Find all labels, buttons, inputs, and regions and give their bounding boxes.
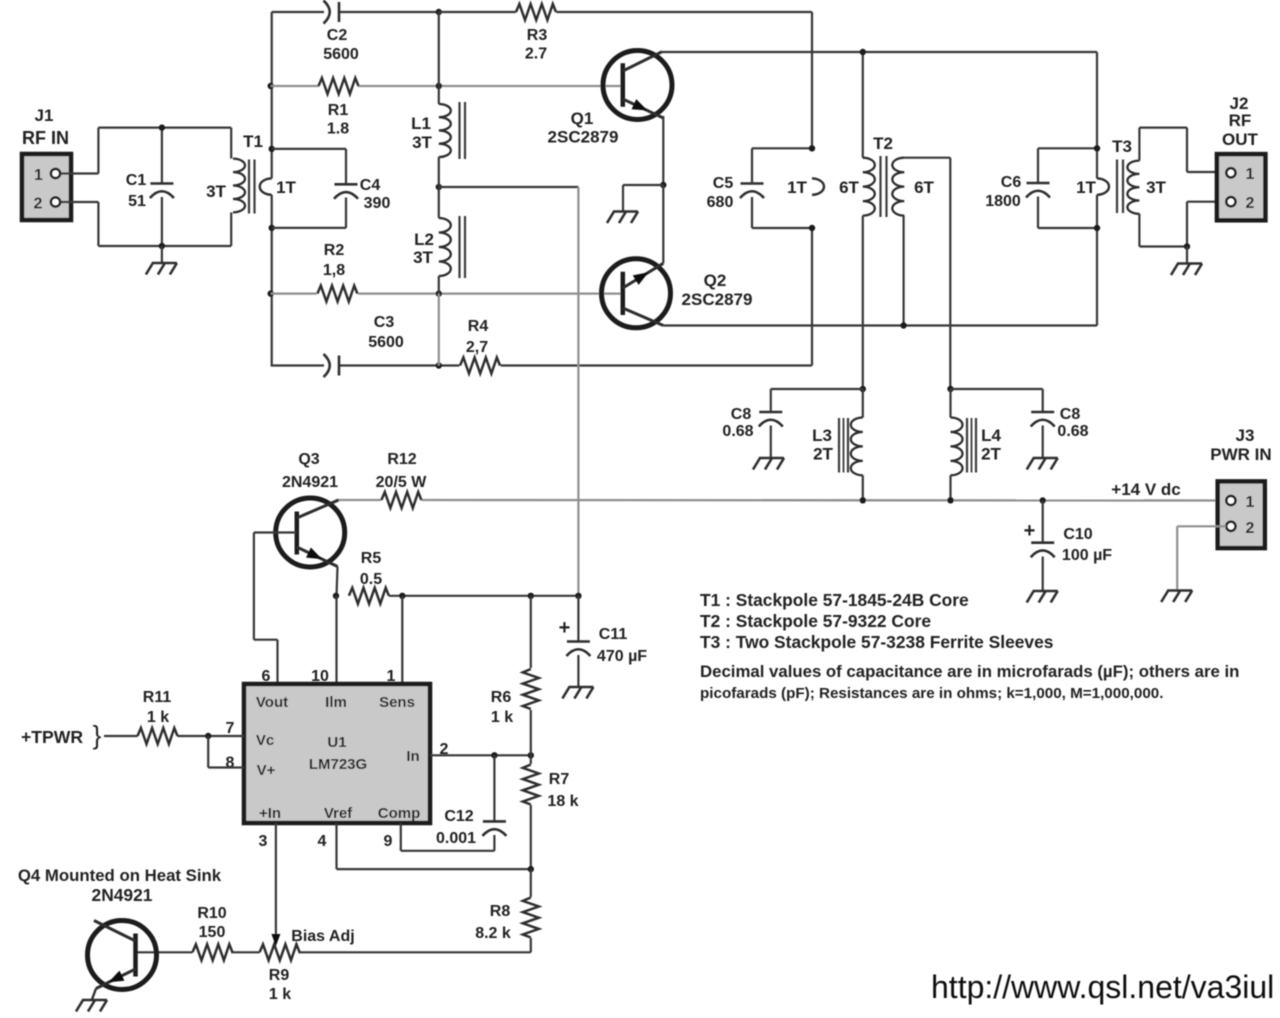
- svg-text:2,7: 2,7: [466, 339, 488, 356]
- resistor R11: [104, 689, 244, 744]
- svg-text:51: 51: [128, 193, 146, 210]
- wire output link vertical x1097: [1096, 52, 1098, 326]
- svg-text:http://www.qsl.net/va3iul: http://www.qsl.net/va3iul: [931, 969, 1274, 1005]
- transformer T1: [206, 128, 263, 246]
- wire Ilm pin10: [335, 596, 337, 684]
- svg-text:L2: L2: [414, 230, 434, 249]
- inductor L2: [413, 157, 465, 366]
- wire V+ pin8: [208, 736, 244, 768]
- node R6 R7 junction: [528, 752, 534, 758]
- node base bus upper: [436, 83, 442, 89]
- transformer T2: [839, 52, 950, 389]
- svg-text:L4: L4: [981, 426, 1001, 445]
- capacitor C3: [324, 314, 404, 377]
- svg-text:2SC2879: 2SC2879: [682, 290, 753, 309]
- svg-text:R10: R10: [197, 905, 226, 922]
- node base bus lower: [436, 290, 442, 296]
- svg-text:PWR IN: PWR IN: [1210, 445, 1271, 464]
- resistor R6: [491, 596, 539, 756]
- svg-text:picofarads (pF); Resistances a: picofarads (pF); Resistances are in ohms…: [700, 685, 1163, 702]
- svg-text:1800: 1800: [985, 193, 1021, 210]
- svg-text:3T: 3T: [206, 182, 226, 201]
- svg-text:1: 1: [387, 668, 396, 685]
- svg-text:7: 7: [226, 720, 235, 737]
- svg-text:T3: T3: [1112, 137, 1132, 156]
- capacitor C6 loop: [985, 148, 1097, 228]
- wire Vref pin4: [337, 823, 531, 869]
- wire Q2 collector bus y325.5: [663, 324, 1097, 326]
- node Vc V+ tie: [205, 733, 211, 739]
- svg-text:Vc: Vc: [256, 732, 274, 749]
- svg-text:20/5 W: 20/5 W: [376, 474, 428, 491]
- wire T2 secondary top to L4: [949, 158, 951, 389]
- svg-text:T1 : Stackpole 57-1845-24B Cor: T1 : Stackpole 57-1845-24B Core: [700, 590, 969, 610]
- capacitor C8 left: [722, 389, 862, 470]
- svg-text:C5: C5: [713, 175, 734, 192]
- capacitor C2: [323, 1, 359, 64]
- svg-text:RF: RF: [1229, 111, 1252, 130]
- svg-text:2: 2: [1246, 195, 1255, 212]
- wire J2 pin2 to ground: [1187, 202, 1226, 247]
- node C1 top: [159, 124, 165, 130]
- svg-text:0.68: 0.68: [1057, 423, 1088, 440]
- svg-text:J3: J3: [1236, 426, 1255, 445]
- capacitor C8 right: [951, 389, 1089, 470]
- svg-text:L3: L3: [812, 426, 832, 445]
- node T3 ground junction: [1184, 243, 1190, 249]
- wire base bus lower y293.6: [271, 293, 622, 295]
- svg-text:2T: 2T: [813, 445, 833, 464]
- node C6 top: [1094, 145, 1100, 151]
- svg-text:R9: R9: [269, 967, 290, 984]
- node T2 primary top: [860, 49, 866, 55]
- connector J3 PWR IN: [1210, 426, 1271, 548]
- wire Q3 base to Vout: [254, 533, 297, 685]
- svg-text:C2: C2: [327, 27, 348, 44]
- node C6 bottom: [1094, 225, 1100, 231]
- transistor Q4 2N4921: [18, 866, 222, 990]
- transformer T3: [1112, 128, 1187, 247]
- node L4 top: [947, 386, 953, 392]
- svg-text:OUT: OUT: [1222, 130, 1259, 149]
- svg-text:1T: 1T: [1076, 178, 1096, 197]
- node rail C4 bottom: [269, 225, 275, 231]
- resistor R1: [319, 78, 359, 138]
- svg-text:2N4921: 2N4921: [282, 474, 338, 491]
- svg-text:3T: 3T: [413, 248, 433, 267]
- svg-text:3: 3: [259, 833, 268, 850]
- svg-text:Bias Adj: Bias Adj: [291, 928, 354, 945]
- svg-text:R6: R6: [491, 689, 512, 706]
- capacitor C5 loop: [707, 148, 812, 228]
- svg-text:1T: 1T: [276, 178, 296, 197]
- node rail R2: [268, 290, 274, 296]
- svg-text:4: 4: [318, 833, 327, 850]
- svg-text:R1: R1: [328, 102, 349, 119]
- capacitor C4 loop: [272, 149, 391, 228]
- svg-text:3T: 3T: [1146, 178, 1166, 197]
- svg-text:In: In: [406, 748, 419, 765]
- connector J1 RF IN: [22, 106, 71, 220]
- wire R5 to C11 node: [389, 595, 579, 597]
- node L3 rail: [860, 497, 866, 503]
- svg-text:6T: 6T: [914, 178, 934, 197]
- svg-text:R11: R11: [143, 689, 172, 706]
- svg-text:R3: R3: [527, 27, 548, 44]
- node C1 bottom: [159, 243, 165, 249]
- wire input loop frame: [98, 128, 231, 246]
- svg-text:Q4 Mounted on Heat Sink: Q4 Mounted on Heat Sink: [18, 866, 222, 885]
- node R5 left: [333, 593, 339, 599]
- svg-text:Q1: Q1: [571, 109, 594, 128]
- svg-text:150: 150: [199, 924, 226, 941]
- svg-text:Vref: Vref: [324, 805, 353, 822]
- svg-text:1: 1: [1246, 494, 1255, 511]
- svg-text:470 µF: 470 µF: [597, 648, 647, 665]
- svg-text:1T: 1T: [787, 178, 807, 197]
- svg-text:18 k: 18 k: [547, 793, 578, 810]
- svg-text:2SC2879: 2SC2879: [548, 128, 619, 147]
- ground Q1 Q2 emitters: [607, 185, 663, 223]
- node L1 L2 midpoint: [436, 184, 442, 190]
- svg-text:0.001: 0.001: [436, 830, 476, 847]
- transformer T2 1T link winding: [787, 178, 824, 197]
- wire J3 pin2 ground: [1161, 526, 1226, 602]
- svg-text:RF IN: RF IN: [22, 128, 69, 148]
- svg-text:}: }: [93, 720, 102, 750]
- svg-text:1: 1: [1246, 166, 1255, 183]
- svg-text:Decimal values of capacitance: Decimal values of capacitance are in mic…: [700, 662, 1239, 681]
- svg-text:2T: 2T: [981, 445, 1001, 464]
- svg-text:Ilm: Ilm: [325, 694, 347, 711]
- node C10 rail: [1040, 497, 1046, 503]
- svg-text:10: 10: [311, 668, 329, 685]
- svg-text:C8: C8: [1060, 406, 1081, 423]
- resistor R2: [317, 242, 357, 302]
- svg-text:U1: U1: [327, 734, 346, 751]
- svg-text:C6: C6: [1001, 174, 1022, 191]
- node C12 top: [491, 752, 497, 758]
- resistor R4: [460, 318, 500, 374]
- wire Q3 emitter to R5: [337, 567, 338, 596]
- node R6 top: [528, 593, 534, 599]
- svg-text:8.2 k: 8.2 k: [475, 925, 511, 942]
- wire Q2 emitter: [662, 185, 664, 263]
- svg-text:1 k: 1 k: [269, 986, 291, 1003]
- svg-text:C3: C3: [374, 314, 395, 331]
- svg-text:R5: R5: [361, 550, 382, 567]
- svg-text:2N4921: 2N4921: [92, 885, 153, 905]
- node C11 top: [575, 593, 581, 599]
- wire +14V dc rail: [337, 480, 1226, 501]
- node L4 rail: [947, 497, 953, 503]
- transistor Q3 2N4921: [276, 451, 345, 567]
- node Sens tap: [399, 593, 405, 599]
- svg-text:2: 2: [1246, 520, 1255, 537]
- svg-text:R12: R12: [387, 451, 416, 468]
- capacitor C12: [401, 755, 507, 851]
- wire feedback link vertical x812: [811, 12, 813, 366]
- connector J2 RF OUT: [1217, 94, 1266, 220]
- svg-text:5600: 5600: [323, 46, 359, 63]
- node top rail junction: [436, 9, 442, 15]
- svg-text:T1: T1: [243, 132, 263, 151]
- capacitor C10: [1024, 501, 1113, 603]
- resistor R3: [439, 4, 556, 63]
- node rail C4 top: [269, 146, 275, 152]
- resistor R10: [136, 905, 260, 960]
- svg-text:1: 1: [34, 167, 43, 184]
- svg-text:1.8: 1.8: [327, 121, 349, 138]
- svg-text:C4: C4: [360, 177, 381, 194]
- wire T3 to J2 pin1: [1187, 171, 1226, 173]
- svg-text:+: +: [1024, 520, 1036, 542]
- resistor R8: [475, 869, 539, 952]
- transistor Q1 2SC2879: [548, 51, 672, 147]
- wire Q1 collector bus y52: [662, 51, 1097, 53]
- svg-text:0.68: 0.68: [722, 423, 753, 440]
- svg-text:C8: C8: [731, 406, 752, 423]
- svg-text:1 k: 1 k: [147, 709, 169, 726]
- wire In pin2: [430, 754, 531, 756]
- svg-text:+In: +In: [259, 805, 281, 822]
- wire base bus upper y86: [271, 85, 622, 87]
- svg-text:J1: J1: [35, 106, 54, 125]
- inductor L3: [812, 389, 863, 500]
- wire bias bottom bus: [298, 951, 530, 953]
- node T2 secondary bottom: [900, 322, 906, 328]
- svg-text:Vout: Vout: [256, 694, 288, 711]
- resistor R5: [349, 550, 389, 604]
- svg-text:1 k: 1 k: [491, 709, 513, 726]
- svg-text:L1: L1: [411, 114, 431, 133]
- svg-text:R7: R7: [549, 771, 570, 788]
- note transformers: [700, 590, 1053, 652]
- svg-text:R8: R8: [490, 903, 511, 920]
- wire bottom feedback rail y365.5: [271, 364, 812, 366]
- node C5 top: [809, 145, 815, 151]
- svg-text:Q2: Q2: [704, 271, 727, 290]
- IC U1 LM723G: [244, 684, 430, 823]
- svg-text:0.5: 0.5: [360, 571, 382, 588]
- wire L1L2 tap to bias feed: [439, 187, 579, 596]
- svg-text:8: 8: [226, 755, 235, 772]
- node rail R1: [268, 83, 274, 89]
- svg-text:6T: 6T: [839, 178, 859, 197]
- transistor Q2 2SC2879: [602, 259, 753, 328]
- inductor L4: [951, 389, 1002, 500]
- ground J2: [1171, 247, 1202, 276]
- ground Q4 emitter: [76, 989, 107, 1012]
- svg-text:R2: R2: [324, 242, 345, 259]
- svg-text:1,8: 1,8: [323, 262, 345, 279]
- svg-text:Sens: Sens: [379, 694, 415, 711]
- wire J1 pin2 to input loop: [61, 201, 99, 203]
- capacitor C11: [559, 596, 648, 699]
- svg-text:V+: V+: [257, 762, 276, 779]
- svg-text:R4: R4: [468, 318, 489, 335]
- svg-text:680: 680: [707, 194, 734, 211]
- wire Q1 emitter: [662, 116, 664, 185]
- svg-text:100 µF: 100 µF: [1062, 547, 1112, 564]
- svg-text:T3 : Two Stackpole 57-3238 Fer: T3 : Two Stackpole 57-3238 Ferrite Sleev…: [700, 632, 1053, 652]
- node C5 bottom: [809, 225, 815, 231]
- note units: [700, 662, 1239, 702]
- svg-text:Q3: Q3: [298, 451, 319, 468]
- svg-text:2.7: 2.7: [525, 46, 547, 63]
- node bottom rail junction: [436, 362, 442, 368]
- svg-text:Comp: Comp: [378, 805, 421, 822]
- svg-text:3T: 3T: [412, 133, 432, 152]
- transformer T3 primary 1T link: [1076, 178, 1109, 197]
- node R7 R8 junction: [528, 866, 534, 872]
- svg-text:6: 6: [262, 668, 271, 685]
- svg-text:2: 2: [34, 196, 43, 213]
- ground below C1: [146, 246, 177, 275]
- node L3 top: [860, 386, 866, 392]
- potentiometer R9 Bias Adj: [260, 823, 355, 1003]
- svg-text:9: 9: [384, 833, 393, 850]
- svg-text:+: +: [559, 617, 571, 639]
- wire left feedback rail: [271, 12, 273, 366]
- svg-text:T2 : Stackpole 57-9322 Core: T2 : Stackpole 57-9322 Core: [700, 611, 931, 631]
- svg-text:LM723G: LM723G: [309, 756, 367, 773]
- wire J1 pin1 to input loop: [61, 172, 99, 174]
- svg-text:+TPWR: +TPWR: [21, 727, 83, 747]
- svg-text:+14 V dc: +14 V dc: [1111, 480, 1180, 499]
- svg-text:C10: C10: [1063, 526, 1092, 543]
- transformer T1 secondary 1T link on rail: [260, 178, 297, 197]
- capacitor C1: [126, 128, 174, 246]
- wire top feedback rail y12: [272, 11, 812, 13]
- svg-text:T2: T2: [873, 134, 893, 153]
- svg-text:C1: C1: [126, 172, 147, 189]
- wire Sens pin1: [401, 596, 403, 684]
- svg-text:390: 390: [364, 195, 391, 212]
- inductor L1: [411, 12, 465, 159]
- resistor R12: [376, 451, 428, 508]
- svg-text:5600: 5600: [368, 334, 404, 351]
- node emitter junction: [660, 182, 666, 188]
- resistor R7: [523, 755, 579, 869]
- svg-text:C12: C12: [444, 808, 473, 825]
- svg-text:C11: C11: [599, 626, 628, 643]
